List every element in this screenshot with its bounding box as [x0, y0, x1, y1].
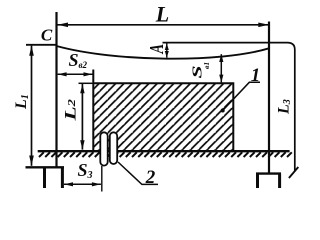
- svg-text:в1: в1: [202, 62, 211, 69]
- svg-text:C: C: [41, 26, 53, 45]
- svg-text:1: 1: [251, 65, 261, 86]
- svg-text:L: L: [155, 1, 169, 26]
- svg-text:2: 2: [145, 167, 156, 188]
- svg-text:A: A: [145, 44, 168, 54]
